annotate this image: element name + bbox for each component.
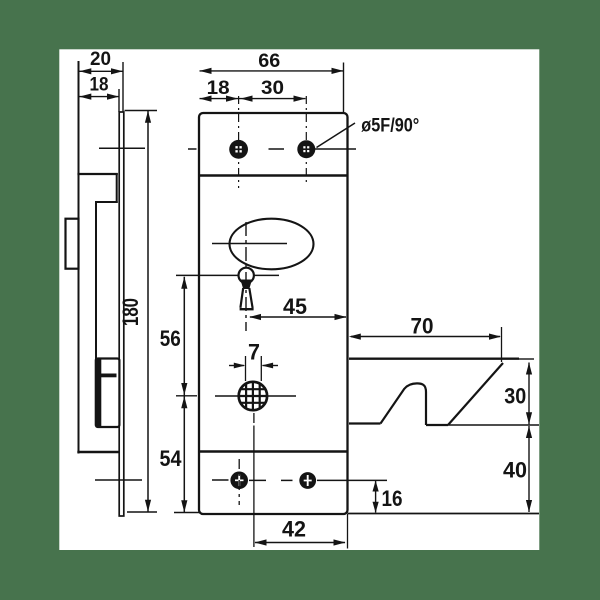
side view: latch block divider bbox=[100, 374, 117, 378]
dim 7 extension left bbox=[245, 356, 247, 381]
latch bottom right edge bbox=[426, 424, 448, 426]
hole centerline horizontal segment 2 bbox=[269, 148, 285, 150]
dim 16 line bbox=[375, 481, 377, 513]
arrow dim56 up bbox=[181, 277, 187, 289]
keyhole centerline horizontal (56 top extension) bbox=[176, 274, 279, 276]
spindle hole hatched bbox=[238, 381, 268, 411]
arrow dim18top right bbox=[226, 96, 238, 102]
arrow dim20 right bbox=[111, 68, 123, 74]
svg-text:20: 20 bbox=[90, 48, 111, 70]
front view plate bbox=[199, 113, 348, 514]
dim 18 side line bbox=[79, 96, 119, 98]
arrow dim66 left bbox=[200, 68, 212, 74]
dim 30 right line bbox=[528, 363, 530, 425]
keyhole tail bottom edge bbox=[240, 308, 254, 310]
dim 56-54 line bbox=[183, 277, 185, 513]
svg-text:42: 42 bbox=[282, 517, 306, 542]
arrow dim70 left bbox=[349, 334, 361, 340]
dim 18 side extension right bbox=[118, 89, 120, 112]
keyhole tail right outline bbox=[249, 288, 252, 308]
dim 45 line bbox=[250, 316, 346, 318]
spindle-keyway centerline vertical short dash bbox=[253, 413, 255, 423]
white scan page bbox=[59, 49, 539, 550]
dim 70 line bbox=[351, 336, 500, 338]
arrow dim54 down bbox=[181, 500, 187, 512]
dim 54 bottom extension bbox=[174, 512, 201, 514]
dim 42 right extension bbox=[347, 514, 349, 549]
dim 66 right extension bbox=[343, 63, 345, 113]
arrowheads bbox=[79, 68, 532, 546]
keyhole tail dark throat bbox=[240, 280, 252, 290]
svg-text:45: 45 bbox=[283, 294, 307, 319]
side view: latch block outer bbox=[96, 359, 120, 428]
bottom hole centerline segment 3 bbox=[281, 479, 293, 481]
bottom hole centerline segment 4 bbox=[317, 479, 387, 481]
dim 20 extension right bbox=[122, 62, 124, 112]
oval centerline horizontal bbox=[212, 243, 287, 245]
arrow dim30top right bbox=[294, 96, 306, 102]
keyhole centerline vertical bbox=[245, 222, 247, 331]
latch deadlatch bump bbox=[381, 383, 427, 425]
hole centerline horizontal segment 3 bbox=[315, 148, 357, 150]
side view: case left outline bbox=[78, 62, 80, 453]
latch bottom left edge bbox=[349, 422, 381, 424]
bottom hole centerline vertical bbox=[238, 459, 240, 505]
side view: case bottom edge bbox=[79, 451, 119, 453]
side view: screw centerline bottom bbox=[95, 479, 142, 481]
svg-text:180: 180 bbox=[118, 298, 143, 326]
arrow dim180 up bbox=[145, 111, 151, 123]
spindle-keyway centerline vertical long (through bottom section to dim 42) bbox=[253, 426, 255, 548]
arrow dim54 up bbox=[181, 396, 187, 408]
arrow dim42 left bbox=[255, 539, 267, 545]
svg-text:16: 16 bbox=[382, 486, 403, 511]
dim 42 line bbox=[255, 542, 345, 544]
hole centerline horizontal segment 1 bbox=[188, 148, 197, 150]
arrow dim45 right bbox=[335, 314, 347, 320]
svg-text:18: 18 bbox=[207, 77, 230, 99]
hole centerline vertical right bbox=[305, 96, 307, 186]
dim 20 line bbox=[79, 70, 123, 72]
dim 180 top extension bbox=[125, 110, 158, 112]
keyhole tail left outline bbox=[240, 288, 243, 308]
bottom hole centerline segment 1 bbox=[212, 479, 229, 481]
svg-text:ø5F/90°: ø5F/90° bbox=[361, 116, 419, 137]
dim 7 extension right bbox=[260, 356, 262, 381]
arrow dim40 down bbox=[526, 500, 532, 512]
dimension texts bbox=[90, 48, 528, 542]
front view section line bottom bbox=[199, 450, 348, 452]
arrow dim16 up bbox=[373, 481, 379, 492]
arrow dim7 left bbox=[234, 363, 246, 369]
spindle centerline horizontal bbox=[215, 395, 296, 397]
arrow dim20 left bbox=[79, 68, 91, 74]
svg-text:30: 30 bbox=[504, 384, 526, 409]
arrow dim16 down bbox=[373, 502, 379, 513]
dim 7 arrow line left bbox=[229, 365, 244, 367]
svg-text:18: 18 bbox=[90, 74, 109, 96]
svg-text:66: 66 bbox=[258, 50, 280, 72]
oval hole bbox=[230, 219, 314, 270]
arrow dim40 up bbox=[526, 426, 532, 438]
arrow dim180 down bbox=[145, 500, 151, 512]
arrow dim30right up bbox=[526, 363, 532, 375]
svg-text:56: 56 bbox=[160, 326, 181, 351]
svg-text:70: 70 bbox=[411, 314, 434, 339]
front view section line top bbox=[199, 174, 348, 176]
side view: inner vertical line bbox=[95, 202, 97, 359]
svg-text:40: 40 bbox=[503, 458, 527, 483]
latch top edge bbox=[349, 358, 519, 360]
keyhole circle bbox=[239, 268, 254, 283]
latch slanted face bbox=[448, 363, 503, 425]
svg-text:7: 7 bbox=[248, 340, 260, 365]
side view: case top step horizontal bbox=[79, 173, 117, 175]
side view: deadbolt protrusion bbox=[66, 219, 79, 269]
svg-text:54: 54 bbox=[160, 446, 183, 471]
dim 180 line bbox=[147, 111, 149, 512]
side view: faceplate (edge-on) bbox=[119, 112, 124, 516]
hole centerline vertical left bbox=[238, 96, 240, 188]
arrow dim42 right bbox=[334, 539, 346, 545]
arrow dim45 left bbox=[249, 314, 261, 320]
side view: latch block thick left edge bbox=[96, 359, 102, 428]
dim 70 right extension bbox=[501, 327, 503, 362]
arrow dim66 right bbox=[332, 68, 344, 74]
bottom hole centerline segment 2 bbox=[249, 479, 266, 481]
latch top extension right bbox=[519, 358, 534, 360]
dim 7 arrow line right bbox=[263, 365, 279, 367]
latch bottom extension right bbox=[448, 424, 539, 426]
arrow dim70 right bbox=[489, 334, 501, 340]
svg-text:30: 30 bbox=[261, 77, 284, 99]
arrow dim7 right bbox=[262, 363, 274, 369]
arrow dim18side left bbox=[79, 94, 91, 100]
arrow dim18side right bbox=[107, 94, 119, 100]
dim 56-54 middle extension (spindle level) bbox=[176, 395, 197, 397]
arrow dim30right down bbox=[526, 412, 532, 424]
arrow dim18top left bbox=[200, 96, 212, 102]
side view: step vertical bbox=[116, 174, 118, 202]
side view: inner step horizontal bbox=[96, 201, 117, 203]
leader line to hole label bbox=[317, 123, 356, 148]
side view: screw centerline top bbox=[99, 147, 145, 149]
plate bottom edge extension bbox=[348, 513, 540, 515]
dim 66 line bbox=[200, 70, 344, 72]
arrow dim30top left bbox=[241, 96, 253, 102]
top screw hole left bbox=[229, 140, 248, 159]
dim 40 right line bbox=[528, 426, 530, 512]
dim 18-30 top line bbox=[200, 98, 306, 100]
bottom screw hole right bbox=[299, 472, 316, 489]
bottom screw hole left bbox=[230, 472, 248, 490]
dim 180 bottom extension bbox=[127, 511, 157, 513]
top screw hole right bbox=[297, 140, 315, 158]
arrow dim56 down bbox=[181, 383, 187, 395]
